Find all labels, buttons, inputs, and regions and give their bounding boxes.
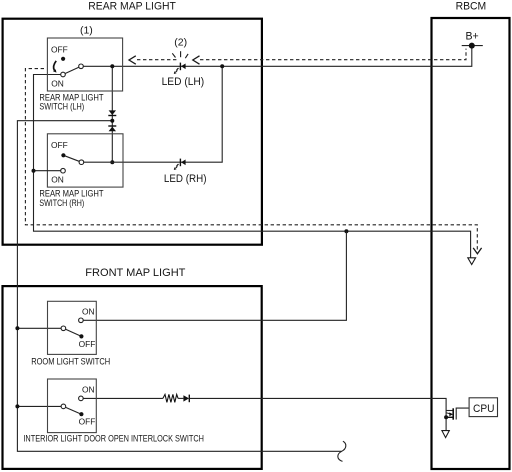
interlock switch ON contact circle (79, 396, 84, 401)
junction dot between diodes (110, 119, 114, 123)
junction dot at RH common (110, 160, 114, 164)
LED (LH) rays (172, 51, 188, 58)
wire: resistor to diode (178, 397, 183, 399)
junction dot on LED LH wire (220, 64, 224, 68)
wire: diode to RBCM transistor, down to ground (190, 398, 447, 430)
wire: RH switch common right and up to LED LH wire (84, 66, 223, 162)
svg-text:(2): (2) (174, 37, 187, 49)
svg-text:RBCM: RBCM (456, 0, 487, 12)
svg-text:ON: ON (82, 307, 95, 317)
room switch OFF contact dot (79, 334, 83, 338)
LH switch rotate arrow (53, 61, 57, 73)
svg-text:ROOM LIGHT SWITCH: ROOM LIGHT SWITCH (31, 356, 110, 366)
body line from dot (446, 416, 453, 418)
interlock switch common contact circle (61, 404, 66, 409)
svg-text:ON: ON (51, 79, 64, 89)
svg-text:SWITCH (RH): SWITCH (RH) (39, 198, 84, 208)
RH switch common contact circle (79, 160, 84, 165)
channel bar (452, 408, 454, 419)
rear map light switch (LH) box (47, 38, 122, 91)
gate connect elbow (446, 410, 453, 412)
source arrowhead (449, 412, 453, 416)
svg-text:ON: ON (51, 175, 64, 185)
arrowhead on dashed bus (bottom, pointing down) (473, 248, 481, 254)
LED (RH) emission arrow (174, 164, 179, 170)
svg-text:CPU: CPU (473, 403, 495, 415)
RH switch arm (63, 155, 81, 162)
wire: dashed illumination line from B+ to LED area (200, 49, 466, 60)
wire: dashed segment left of LED (137, 59, 179, 61)
interlock switch arm (63, 406, 81, 414)
svg-text:B+: B+ (466, 31, 479, 43)
wire: left bus from diode junction down to door-switch line (17, 121, 341, 452)
junction dot at LH common (110, 64, 114, 68)
svg-text:OFF: OFF (79, 339, 96, 349)
diode (pointing right) (183, 395, 189, 403)
wire: diode chain vertical between switches (111, 66, 113, 162)
wire: LH switch common to B+ (83, 46, 472, 67)
LED (LH) emission arrow (174, 68, 179, 74)
LH switch common contact circle (79, 64, 84, 69)
wire: interlock switch ON to resistor (83, 397, 163, 399)
interlock switch box (48, 379, 97, 433)
source arrow line (446, 412, 449, 415)
svg-text:(1): (1) (80, 25, 93, 37)
open arrowhead at end of ON bus (468, 258, 476, 265)
interlock switch OFF contact dot (79, 412, 83, 416)
node B+ terminal (462, 31, 483, 49)
wire: RH ON contact to ON bus (34, 170, 61, 172)
LH switch OFF contact dot (61, 57, 65, 61)
rear map light enclosure box (3, 19, 262, 245)
LED (LH) diode (180, 63, 185, 71)
wire: dashed stub into LH switch and dashed bus down and across to RBCM (25, 69, 477, 250)
wire: ON bus from LH/RH switches down and across to RBCM (34, 75, 471, 258)
wire: room light switch common to left bus (17, 327, 61, 329)
svg-text:OFF: OFF (51, 44, 68, 54)
RH switch ON contact circle (61, 168, 66, 173)
arrowhead on dashed line (right of LED) (193, 56, 200, 64)
break squiggle at wire end (338, 441, 346, 461)
LH switch arm (63, 66, 81, 74)
RH switch OFF contact dot (61, 153, 65, 157)
room switch common contact circle (61, 326, 66, 331)
ground arrow (open triangle) (442, 431, 449, 438)
room switch arm (63, 328, 81, 336)
wire: room light switch ON to bus (83, 231, 346, 320)
junction dot on left bus (room switch) (15, 326, 19, 330)
resistor (163, 394, 178, 402)
front map light enclosure box (3, 286, 262, 469)
CPU box (469, 398, 497, 417)
svg-text:SWITCH (LH): SWITCH (LH) (39, 102, 84, 112)
svg-text:LED (LH): LED (LH) (162, 76, 205, 88)
room switch ON contact circle (79, 318, 84, 323)
second bar and drain to CPU (456, 408, 468, 419)
junction dot room-switch vertical on ON bus (344, 229, 348, 233)
rear map light switch (RH) box (47, 134, 123, 187)
svg-text:REAR MAP LIGHT: REAR MAP LIGHT (88, 1, 176, 13)
svg-text:ON: ON (82, 384, 95, 394)
LH switch ON contact circle (61, 72, 66, 77)
wire: interlock switch common to left bus (17, 405, 61, 407)
diode D2 (pointing up) (108, 126, 116, 131)
svg-text:FRONT MAP LIGHT: FRONT MAP LIGHT (85, 267, 185, 279)
svg-text:OFF: OFF (79, 417, 96, 427)
junction dot on ON bus (32, 169, 36, 173)
arrowhead on dashed line (left end) (129, 56, 136, 64)
junction dot (444, 415, 448, 419)
RBCM enclosure box (432, 18, 510, 469)
svg-text:OFF: OFF (51, 140, 68, 150)
diode D1 (pointing down) (108, 110, 116, 115)
junction dot on left bus (interlock switch) (15, 404, 19, 408)
svg-text:LED (RH): LED (RH) (164, 173, 207, 185)
LED (RH) diode (180, 159, 185, 167)
transistor Q1 in RBCM (444, 408, 469, 420)
svg-text:INTERIOR LIGHT DOOR OPEN INTER: INTERIOR LIGHT DOOR OPEN INTERLOCK SWITC… (23, 434, 204, 444)
room light switch box (48, 301, 97, 354)
